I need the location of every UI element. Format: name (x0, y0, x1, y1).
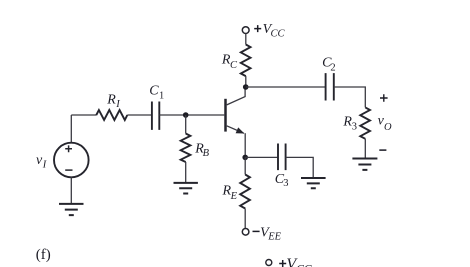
partial +VCC label of cropped circuit (279, 260, 286, 267)
wire vertical from top corner down to source circle (70, 115, 72, 143)
capacitor C1 plates (152, 102, 159, 130)
wire node down to RB (185, 115, 187, 134)
wire left horizontal from source top corner to RI (71, 114, 96, 116)
minus sign inside source (65, 169, 72, 171)
wire C1 to base bar through node (159, 114, 224, 116)
svg-text:2: 2 (330, 62, 335, 73)
svg-text:I: I (115, 99, 120, 110)
svg-text:C: C (230, 60, 238, 71)
label +VCC (254, 25, 261, 32)
wire RI to C1 (127, 114, 152, 116)
resistor RI (zigzag) (96, 110, 127, 120)
resistor RE (zigzag) (240, 175, 250, 209)
svg-text:CC: CC (271, 29, 286, 40)
wire C3 to ground corner (286, 157, 314, 177)
terminal circle -VEE (242, 229, 249, 236)
ground right of C3 (301, 178, 326, 188)
terminal circle +VCC (242, 27, 249, 34)
label -VEE (253, 230, 260, 232)
svg-text:CC: CC (296, 263, 312, 267)
wire RB to ground (185, 162, 187, 182)
svg-text:B: B (203, 148, 210, 159)
terminal circle of next cropped circuit (266, 260, 272, 266)
wire source to ground (70, 177, 72, 203)
svg-text:E: E (230, 191, 238, 202)
resistor RC (zigzag) (241, 45, 251, 77)
wire emitter node to C3 (245, 156, 278, 158)
svg-text:I: I (42, 160, 47, 171)
svg-text:EE: EE (267, 232, 281, 243)
node dot base (183, 112, 189, 118)
collector node dot (243, 84, 249, 90)
wire RC to collector node (245, 76, 247, 87)
emitter node dot (242, 155, 248, 161)
svg-text:(f): (f) (36, 247, 51, 263)
output minus sign (379, 149, 386, 151)
svg-text:1: 1 (159, 90, 164, 101)
wire C2 to R3 corner (334, 87, 366, 107)
voltage source vI (54, 143, 89, 178)
svg-text:C: C (149, 84, 159, 99)
svg-text:3: 3 (283, 178, 288, 189)
transistor emitter lead (227, 126, 244, 134)
wire R3 to ground (364, 139, 366, 158)
transistor collector lead (227, 88, 245, 105)
ground under R3 (352, 159, 377, 170)
ground under source (59, 204, 84, 215)
svg-text:R: R (106, 92, 116, 107)
svg-text:3: 3 (352, 122, 357, 133)
ground under RB (174, 183, 198, 194)
resistor RB (zigzag) (181, 134, 191, 163)
resistor R3 (zigzag) (360, 107, 370, 138)
wire collector node to C2 (246, 86, 326, 88)
transistor Q1 base bar (224, 99, 227, 132)
wire VCC terminal to RC (245, 34, 247, 45)
output plus sign (380, 94, 388, 102)
wire emitter node down to RE (244, 157, 246, 174)
emitter arrowhead (236, 127, 245, 133)
wire emitter down to node (244, 133, 246, 157)
capacitor C3 plates (278, 144, 286, 171)
svg-text:O: O (384, 122, 392, 133)
plus sign inside source (65, 145, 72, 152)
capacitor C2 plates (326, 73, 334, 100)
wire RE to VEE terminal (244, 209, 246, 229)
